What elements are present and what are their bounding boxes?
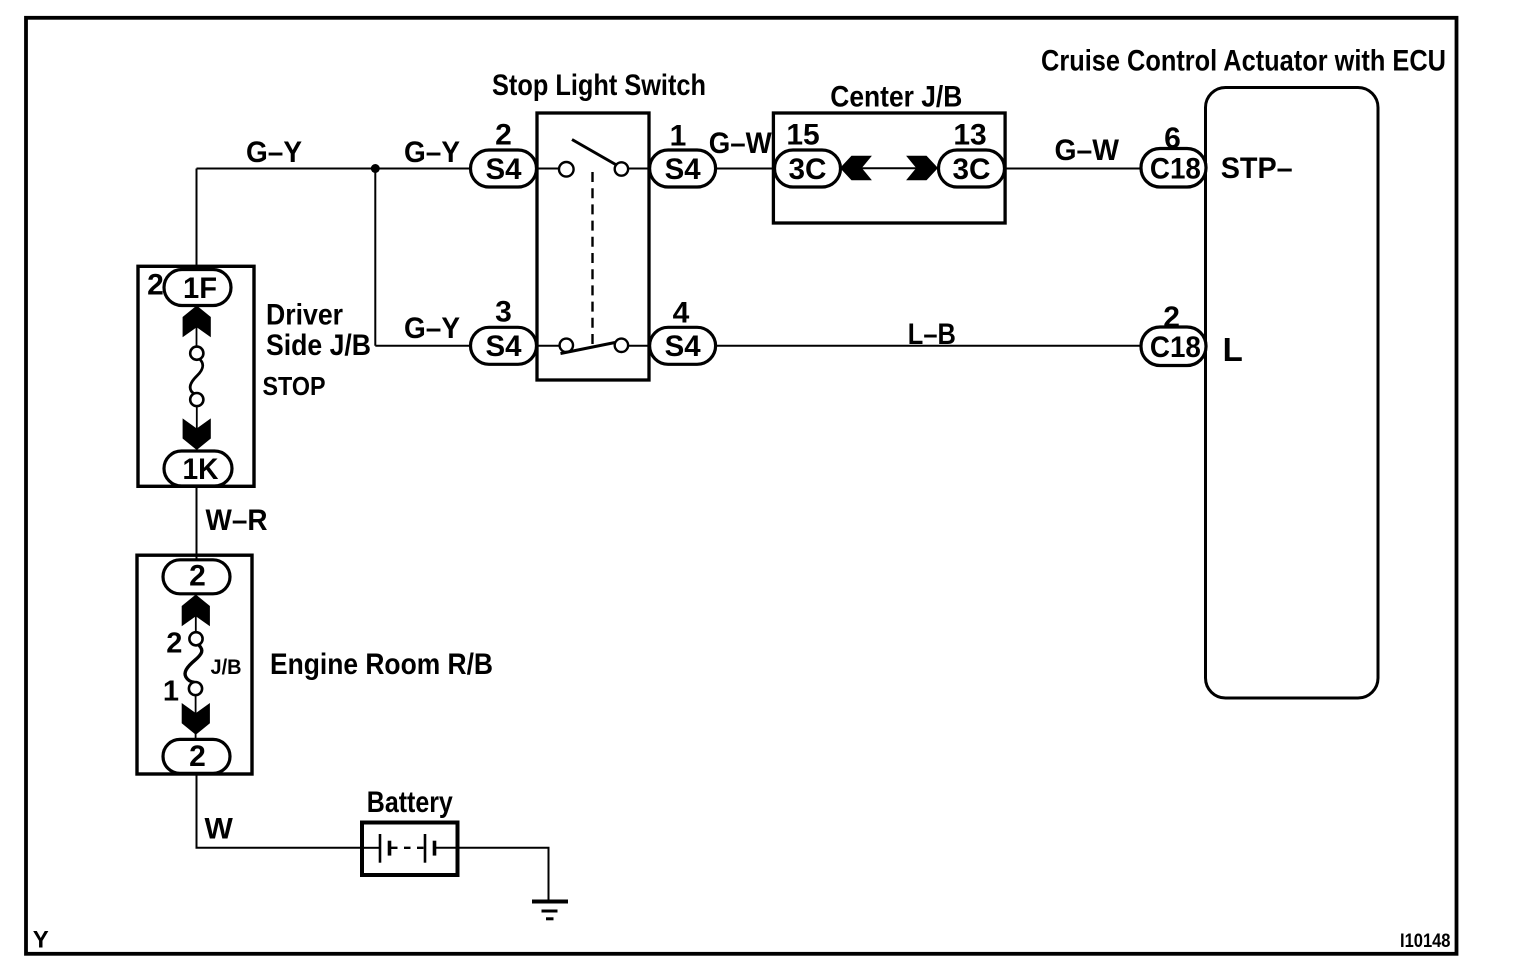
svg-text:15: 15 — [786, 119, 819, 152]
Battery box — [362, 823, 458, 876]
arrow right into 3C pin 13 — [906, 156, 938, 181]
switch contact upper right — [615, 162, 628, 175]
battery plate long (left cell) — [379, 834, 382, 863]
svg-text:4: 4 — [673, 297, 690, 330]
connector oval 1K — [164, 451, 232, 486]
svg-text:I10148: I10148 — [1400, 931, 1451, 952]
svg-text:2: 2 — [189, 560, 206, 593]
connector oval 2 (bottom) — [163, 739, 230, 773]
mechanical link dashed line — [591, 172, 593, 348]
wire stub to S4 pin 1 — [628, 168, 650, 170]
svg-text:W: W — [205, 813, 234, 846]
svg-text:G–W: G–W — [709, 127, 773, 160]
arrow left into 3C pin 15 — [840, 156, 872, 181]
connector oval S4 pin 1 — [650, 150, 716, 187]
connector oval 1F — [164, 270, 231, 306]
wire W-R from 1K to Engine Room R/B — [196, 486, 198, 560]
wire W from Engine Room R/B to battery — [197, 774, 362, 848]
svg-text:S4: S4 — [665, 153, 701, 186]
svg-text:C18: C18 — [1150, 153, 1201, 186]
svg-text:Driver: Driver — [266, 299, 343, 332]
svg-text:J/B: J/B — [211, 656, 242, 679]
ground symbol — [532, 900, 568, 904]
fusible link squiggle — [190, 359, 203, 394]
arrow up (engine) — [182, 595, 210, 627]
wire: vertical drop from G-Y run to 1F — [196, 169, 198, 272]
svg-text:G–W: G–W — [1055, 134, 1120, 167]
Stop Light Switch box — [537, 113, 649, 380]
svg-text:G–Y: G–Y — [246, 136, 302, 169]
battery dashed link — [391, 847, 424, 849]
battery plate short (left cell) — [388, 841, 392, 856]
Driver Side J/B box — [138, 266, 254, 486]
arrow up to 1F — [183, 306, 211, 338]
switch contact upper left — [559, 162, 574, 177]
wire stub into switch (upper left) — [537, 168, 560, 170]
fusible link circle upper — [190, 347, 203, 360]
connector oval 3C pin 13 — [939, 150, 1005, 187]
svg-text:S4: S4 — [486, 153, 522, 186]
wire: junction down branch — [374, 169, 376, 346]
svg-text:1K: 1K — [183, 453, 219, 486]
svg-text:1: 1 — [163, 676, 179, 708]
svg-text:L–B: L–B — [908, 318, 956, 351]
Cruise Control Actuator with ECU box — [1206, 88, 1379, 699]
junction node — [371, 164, 380, 173]
connector oval C18 pin 2 — [1141, 327, 1206, 366]
svg-text:S4: S4 — [486, 330, 522, 363]
svg-text:2: 2 — [147, 269, 164, 302]
svg-text:STP–: STP– — [1221, 152, 1293, 185]
switch blade (upper, open) — [572, 140, 617, 166]
fusible link circle lower (engine) — [189, 682, 202, 695]
svg-text:3C: 3C — [789, 153, 827, 186]
connector oval S4 pin 4 — [650, 327, 716, 364]
svg-text:1F: 1F — [183, 272, 217, 305]
wire G-W from S4 pin 1 to Center J/B — [716, 168, 775, 170]
svg-text:Battery: Battery — [367, 786, 453, 819]
wire stub to S4 pin 4 — [628, 345, 650, 347]
svg-text:2: 2 — [189, 740, 206, 773]
svg-text:3C: 3C — [953, 153, 991, 186]
battery plate long (right cell) — [424, 834, 427, 863]
internal link line — [195, 594, 197, 632]
svg-text:2: 2 — [166, 628, 182, 660]
svg-text:1: 1 — [670, 120, 687, 153]
switch contact lower left — [560, 339, 573, 352]
arrow down to 1K — [183, 418, 211, 450]
svg-text:L: L — [1223, 331, 1243, 368]
fusible link circle upper (engine) — [189, 632, 202, 645]
fusible link squiggle (engine) — [185, 645, 202, 682]
connector oval S4 pin 2 — [471, 150, 537, 187]
bus wire between 3C connectors — [850, 167, 928, 169]
wire stub into switch (lower left) — [537, 345, 560, 347]
connector oval 3C pin 15 — [775, 150, 841, 187]
svg-text:Y: Y — [33, 927, 49, 954]
svg-text:G–Y: G–Y — [404, 312, 460, 345]
battery lead left — [364, 847, 380, 849]
svg-text:C18: C18 — [1150, 331, 1201, 364]
svg-text:13: 13 — [953, 119, 986, 152]
internal link line — [196, 306, 198, 347]
wire G-W from 3C pin 13 to C18 pin 6 — [1005, 168, 1142, 170]
switch blade (lower, closed) — [561, 343, 616, 354]
wire: branch to S4 pin 3 — [375, 345, 470, 347]
svg-text:Stop Light Switch: Stop Light Switch — [492, 69, 706, 102]
svg-text:Cruise Control Actuator with E: Cruise Control Actuator with ECU — [1041, 45, 1446, 78]
svg-text:G–Y: G–Y — [404, 136, 460, 169]
svg-text:Side J/B: Side J/B — [266, 329, 371, 362]
switch contact lower right — [615, 339, 628, 352]
svg-text:3: 3 — [495, 296, 512, 329]
connector oval S4 pin 3 — [471, 327, 537, 364]
arrow down (engine) — [182, 703, 210, 735]
connector oval C18 pin 6 — [1141, 149, 1206, 188]
fusible link circle lower — [190, 393, 203, 406]
svg-text:Center J/B: Center J/B — [830, 81, 962, 114]
svg-text:Engine Room R/B: Engine Room R/B — [270, 648, 493, 681]
Engine Room R/B box — [137, 555, 252, 774]
svg-text:2: 2 — [495, 119, 512, 152]
battery lead right / wire to ground — [435, 848, 549, 901]
svg-text:W–R: W–R — [206, 504, 268, 537]
connector oval 2 (top) — [163, 560, 230, 594]
wire: G-Y horizontal run to S4 pin 2 — [197, 168, 471, 170]
battery plate short (right cell) — [433, 841, 437, 856]
wire L-B from S4 pin 4 to C18 pin 2 — [716, 345, 1141, 347]
Center J/B box — [773, 113, 1005, 223]
svg-text:STOP: STOP — [263, 373, 326, 401]
svg-text:S4: S4 — [665, 330, 701, 363]
